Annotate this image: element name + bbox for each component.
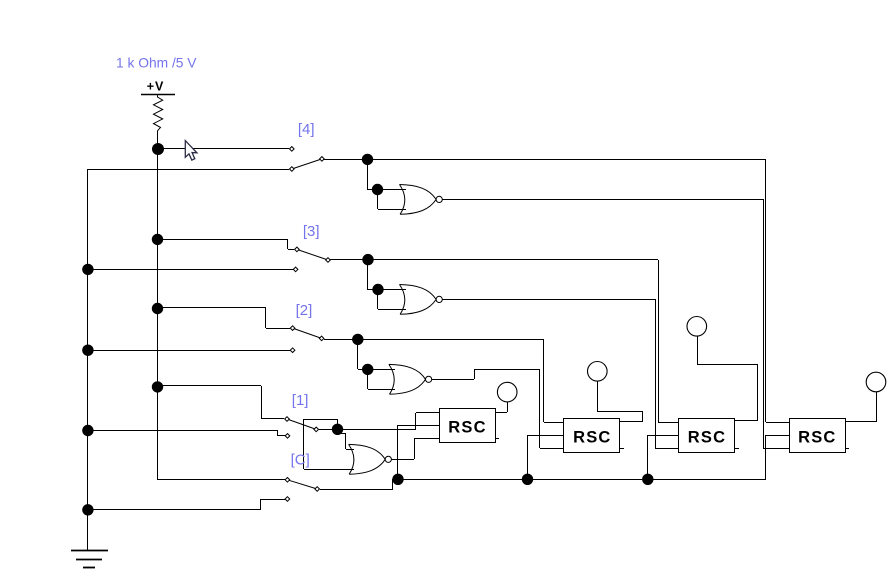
NOR gate U3 — [400, 285, 443, 315]
wire: clock bottom rail — [393, 479, 766, 481]
RS flip-flop U5 "RSC" — [440, 409, 496, 443]
wire: switchC pivot to bottom rail — [320, 479, 393, 490]
switch S3 contacts — [293, 247, 330, 272]
label: circuit title "1 k Ohm /5 V" — [116, 56, 197, 71]
node: main bus junction row1 — [152, 381, 163, 392]
wire: ground bus to switch2 bottom contact — [88, 350, 290, 352]
wire: ground bus to switch3 bottom contact — [88, 269, 293, 271]
svg-text:RSC: RSC — [573, 429, 611, 447]
wire: ground bus to switch1 bottom contact — [88, 430, 285, 436]
node: switch1 output junction — [332, 424, 343, 435]
node: gate U4 input junction — [372, 184, 383, 195]
NOR gate UC — [349, 444, 392, 474]
svg-text:[C]: [C] — [291, 451, 310, 468]
label [2] — [296, 302, 313, 319]
wire: U2 output jog to RSC2 bottom pin — [432, 370, 564, 449]
wire: rail end up to RSC4 middle pin — [766, 435, 790, 479]
switch S4 contacts — [290, 147, 325, 172]
node: ground bus junction row1 — [82, 425, 93, 436]
pin stub RSC4 right — [845, 448, 849, 450]
node: rail junction B — [522, 474, 533, 485]
wire: main bus bottom corner to switch C top contact — [157, 479, 285, 481]
label [1] — [292, 392, 309, 409]
svg-text:[4]: [4] — [298, 121, 315, 138]
wire: rail to RSC3 middle pin — [647, 435, 679, 479]
wire: RSC1 to lamp X1 — [495, 402, 508, 413]
wire: to U2 bottom input — [368, 369, 396, 390]
svg-text:RSC: RSC — [688, 429, 726, 447]
node: resistor output junction — [152, 143, 164, 155]
pin stub RSC1 right — [495, 438, 499, 440]
pin stub RSC2 right — [620, 448, 624, 450]
wire: switch2 pivot to node then long run right — [324, 339, 544, 341]
wire: RSC3 to lamp X3 — [698, 336, 759, 421]
node: main bus junction row3 — [152, 234, 163, 245]
NOR gate U4 — [400, 185, 443, 215]
RS flip-flop U7 "RSC" — [679, 419, 735, 453]
wire: junction down to gate U3 inputs — [368, 260, 379, 290]
node: gate U2 input junction — [362, 364, 373, 375]
node: ground bus junction row2 — [82, 345, 93, 356]
wire: ground bus vertical x=87.9 — [87, 169, 89, 550]
wire: main bus to switch3 top contact — [158, 239, 294, 250]
node: rail junction C — [642, 474, 653, 485]
svg-text:1 k Ohm /5 V: 1 k Ohm /5 V — [116, 56, 197, 71]
wire: loop to gate UC bottom input — [304, 419, 355, 470]
label [3] — [303, 223, 320, 240]
svg-text:[2]: [2] — [296, 302, 313, 319]
lamp X3 — [687, 317, 707, 337]
switch S4 lever — [292, 159, 322, 169]
switch S3 lever — [297, 249, 328, 260]
wire: to U2 top input — [368, 369, 395, 371]
lamp X2 — [588, 362, 608, 382]
switch SC contacts — [285, 478, 319, 502]
switch S1 contacts — [285, 417, 319, 439]
wire: junction down to gate U2 inputs — [358, 339, 369, 370]
wire: dot to switch4 top contact — [158, 148, 289, 150]
wire: rail to RSC1 middle pin — [397, 425, 439, 479]
wire: switch3 pivot to node, long run right — [330, 259, 658, 261]
wire: main bus to switch2 top contact — [158, 308, 290, 329]
wire: RSC4 to lamp X4 — [845, 392, 877, 422]
RS flip-flop U6 "RSC" — [564, 419, 620, 453]
wire: switch4 pivot to node, long run right — [324, 159, 766, 161]
switch S2 lever — [293, 328, 322, 338]
wire: to U3 top input — [378, 289, 406, 291]
wire: switch3 run down to RSC3 top pin — [658, 260, 679, 423]
wire: switch1 pivot to node — [319, 429, 416, 431]
wire: ground bus to switch4 bottom contact — [88, 169, 289, 171]
svg-text:[1]: [1] — [292, 392, 309, 409]
wire: RSC2 to lamp X2 — [597, 381, 643, 422]
wire: U4 output long run right — [442, 199, 763, 201]
svg-text:RSC: RSC — [798, 429, 836, 447]
wire: junction down to gate U4 inputs — [368, 159, 379, 190]
node: rail junction A — [392, 474, 403, 485]
svg-text:[3]: [3] — [303, 223, 320, 240]
wire: switch2 run down to RSC2 top pin — [544, 339, 565, 423]
wire: jog to gate UC top input — [340, 434, 354, 450]
wire: to U4 top input — [378, 189, 406, 191]
node: switch3 output junction — [362, 254, 373, 265]
wire: rail to RSC2 middle pin — [528, 435, 565, 479]
switch SC lever — [287, 480, 317, 489]
node: switch2 output junction — [352, 334, 363, 345]
pin stub RSC3 right — [734, 448, 739, 450]
wire: to U3 bottom input — [378, 290, 407, 310]
label [4] — [298, 121, 315, 138]
lamp X4 — [866, 372, 886, 392]
wire: UC output to RSC1 bottom pin — [391, 438, 439, 460]
power supply +V — [141, 80, 175, 95]
node: ground bus junction row3 — [82, 264, 93, 275]
svg-text:+V: +V — [147, 80, 164, 94]
switch S2 contacts — [290, 326, 324, 353]
wire: to U4 bottom input — [378, 190, 407, 210]
switch S1 lever — [287, 419, 316, 429]
node: gate U3 input junction — [372, 284, 383, 295]
lamp X1 — [497, 382, 517, 402]
svg-text:RSC: RSC — [448, 419, 486, 437]
wire: switch4 run down to RSC4 top pin — [766, 159, 790, 423]
wire: main bus to switch1 top contact — [158, 386, 284, 420]
resistor R1 1 kOhm — [154, 95, 163, 144]
NOR gate U2 — [389, 364, 432, 394]
node: main bus junction row2 — [152, 303, 163, 314]
label [C] — [291, 451, 310, 468]
node: ground bus junction rowC — [82, 504, 93, 515]
wire: U3 output long run right — [442, 299, 655, 301]
wire: U4 output down to RSC4 bottom pin — [763, 199, 789, 449]
mouse cursor — [185, 141, 197, 161]
RS flip-flop U8 "RSC" — [790, 419, 846, 453]
wire: staircase up to RSC1 top pin — [416, 413, 440, 430]
node: switch4 output junction — [362, 154, 373, 165]
ground — [71, 551, 108, 568]
wire: U3 output down to RSC3 bottom pin — [655, 299, 679, 449]
wire: ground bus to switchC bottom contact — [88, 499, 285, 510]
wire: main pull-up bus vertical x=157.5 — [157, 144, 159, 479]
